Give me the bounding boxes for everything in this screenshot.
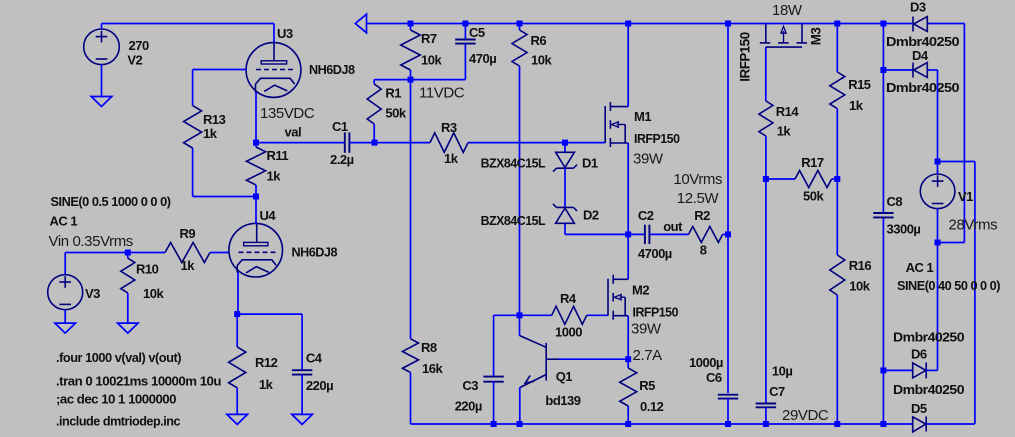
wire R6 down to R4 node xyxy=(519,66,521,315)
resistor R13 xyxy=(184,106,202,148)
svg-text:R3: R3 xyxy=(441,120,457,135)
zener diode D2 xyxy=(557,206,574,208)
svg-text:AC 1: AC 1 xyxy=(50,214,78,229)
svg-text:R9: R9 xyxy=(180,226,196,241)
svg-text:1k: 1k xyxy=(259,377,274,392)
svg-text:U4: U4 xyxy=(260,208,277,223)
svg-text:R10: R10 xyxy=(136,262,159,277)
svg-text:3300µ: 3300µ xyxy=(887,222,921,237)
svg-text:NH6DJ8: NH6DJ8 xyxy=(309,62,355,77)
svg-text:U3: U3 xyxy=(277,26,293,41)
voltage source V1 xyxy=(920,174,955,209)
ground below R12 xyxy=(227,414,248,424)
voltage source V3 xyxy=(64,253,66,275)
svg-text:1000µ: 1000µ xyxy=(689,355,723,370)
svg-text:R4: R4 xyxy=(560,291,577,306)
svg-text:M2: M2 xyxy=(632,283,649,298)
svg-text:M1: M1 xyxy=(634,109,651,124)
svg-text:16k: 16k xyxy=(422,361,443,376)
svg-text:R7: R7 xyxy=(421,31,437,46)
svg-text:2.7A: 2.7A xyxy=(633,347,663,364)
svg-text:R5: R5 xyxy=(639,378,655,393)
svg-text:val: val xyxy=(285,125,302,140)
svg-text:1k: 1k xyxy=(203,126,218,141)
resistor R17 xyxy=(766,178,795,180)
wire U4 cathode xyxy=(237,272,239,314)
wire U3 cathode xyxy=(255,92,257,143)
wire D1 to D2 xyxy=(564,168,566,207)
node val junction xyxy=(253,140,259,146)
svg-text:R6: R6 xyxy=(531,33,547,48)
svg-text:11VDC: 11VDC xyxy=(419,84,465,101)
triode U4 xyxy=(229,223,283,277)
svg-text:Dmbr40250: Dmbr40250 xyxy=(886,80,959,95)
svg-text:R8: R8 xyxy=(421,340,437,355)
svg-text:R11: R11 xyxy=(267,148,289,163)
wire D2 to out node xyxy=(564,223,566,234)
capacitor C1 xyxy=(344,132,346,152)
svg-text:270: 270 xyxy=(129,38,149,53)
voltage source V2 xyxy=(84,29,120,65)
diode D3 xyxy=(912,17,914,32)
svg-text:8: 8 xyxy=(700,243,707,258)
wire input node xyxy=(65,252,165,254)
diode D4 xyxy=(883,69,913,71)
resistor R16 xyxy=(836,179,838,255)
wire M1 source to out xyxy=(627,143,629,234)
svg-text:1000: 1000 xyxy=(555,324,582,339)
resistor R10 xyxy=(127,253,129,259)
nmos M2 xyxy=(607,279,609,316)
diode D5 xyxy=(913,417,926,432)
resistor R3 xyxy=(375,142,431,144)
svg-text:18W: 18W xyxy=(772,2,803,19)
resistor R1 xyxy=(373,80,375,84)
svg-text:IRFP150: IRFP150 xyxy=(738,32,753,81)
node V1 minus xyxy=(935,240,941,246)
wire Q1 collector xyxy=(519,315,521,336)
wire bottom rail xyxy=(411,423,913,425)
wire R13 bottom to node xyxy=(193,196,256,198)
pmos M3 on rail xyxy=(765,24,767,43)
wire M3 gate to R14 xyxy=(765,47,767,101)
nmos M1 xyxy=(604,106,606,143)
resistor R5 xyxy=(627,359,629,368)
svg-text:C7: C7 xyxy=(769,384,785,399)
svg-text:50k: 50k xyxy=(803,189,824,204)
svg-text:10k: 10k xyxy=(143,286,164,301)
svg-text:D5: D5 xyxy=(911,401,927,416)
wire D3 to V1 minus xyxy=(963,24,965,243)
svg-text:C1: C1 xyxy=(332,119,348,134)
svg-text:AC 1: AC 1 xyxy=(906,260,934,275)
svg-text:Vin 0.35Vrms: Vin 0.35Vrms xyxy=(49,233,133,250)
svg-text:39W: 39W xyxy=(631,321,662,338)
svg-text:;ac dec 10 1 1000000: ;ac dec 10 1 1000000 xyxy=(56,391,176,406)
wire M2 drain xyxy=(627,234,629,279)
npn transistor Q1 xyxy=(545,343,547,381)
svg-text:220µ: 220µ xyxy=(455,399,482,414)
wire out column x728 xyxy=(727,24,729,235)
svg-text:R2: R2 xyxy=(694,208,710,223)
svg-text:10Vrms: 10Vrms xyxy=(673,171,722,188)
svg-text:R17: R17 xyxy=(801,155,824,170)
svg-text:Q1: Q1 xyxy=(556,369,573,384)
node after C1 xyxy=(372,140,378,146)
svg-text:R1: R1 xyxy=(385,86,401,101)
capacitor C8 xyxy=(873,212,893,214)
svg-text:10k: 10k xyxy=(849,279,870,294)
net arrow top rail left end xyxy=(355,14,366,33)
svg-text:.four 1000 v(val) v(out): .four 1000 v(val) v(out) xyxy=(56,350,181,365)
node D1 gate xyxy=(562,140,568,146)
ground below R10 xyxy=(118,323,139,333)
svg-text:V3: V3 xyxy=(85,286,100,301)
svg-text:C3: C3 xyxy=(462,378,478,393)
diode D6 xyxy=(883,369,912,371)
resistor R12 xyxy=(236,314,238,347)
svg-text:V2: V2 xyxy=(127,53,142,68)
wire C8 column x883 xyxy=(882,24,884,213)
svg-text:IRFP150: IRFP150 xyxy=(633,304,679,319)
resistor R4 xyxy=(520,314,552,316)
svg-text:12.5W: 12.5W xyxy=(677,190,720,207)
svg-text:1k: 1k xyxy=(267,169,282,184)
resistor R6 xyxy=(519,24,521,31)
wire Q1 base xyxy=(559,358,628,360)
zener diode D1 xyxy=(564,143,566,153)
wire U3 grid xyxy=(193,69,247,71)
svg-text:0.12: 0.12 xyxy=(640,399,664,414)
resistor R7 xyxy=(410,24,412,31)
svg-text:D1: D1 xyxy=(582,156,598,171)
wire top rail left (V2 to U3 anode) xyxy=(102,23,275,25)
svg-text:39W: 39W xyxy=(633,151,664,168)
svg-text:1k: 1k xyxy=(849,98,864,113)
resistor R8 xyxy=(403,339,419,373)
svg-text:1k: 1k xyxy=(777,124,792,139)
resistor R9 xyxy=(165,243,210,263)
wire M2 source xyxy=(627,316,629,360)
svg-text:.include dmtriodep.inc: .include dmtriodep.inc xyxy=(56,414,180,429)
svg-text:out: out xyxy=(663,219,683,234)
svg-text:C2: C2 xyxy=(638,208,654,223)
svg-text:4700µ: 4700µ xyxy=(638,246,672,261)
resistor R14 xyxy=(759,101,773,136)
svg-text:220µ: 220µ xyxy=(306,378,333,393)
svg-text:470µ: 470µ xyxy=(469,51,496,66)
svg-text:Dmbr40250: Dmbr40250 xyxy=(893,382,964,397)
capacitor C6 xyxy=(718,394,738,396)
capacitor C2 xyxy=(628,233,645,235)
ground below C4 xyxy=(292,414,313,424)
node V1 plus xyxy=(935,159,941,165)
svg-text:R15: R15 xyxy=(848,77,871,92)
svg-text:R13: R13 xyxy=(203,112,226,127)
resistor R11 xyxy=(255,143,257,147)
svg-text:M3: M3 xyxy=(808,28,823,46)
wire top rail main xyxy=(366,23,913,25)
wire C7 column xyxy=(765,179,767,403)
svg-text:1k: 1k xyxy=(181,258,196,273)
svg-text:29VDC: 29VDC xyxy=(782,407,829,424)
svg-text:135VDC: 135VDC xyxy=(260,105,315,122)
ground below V2 xyxy=(91,97,112,107)
wire val xyxy=(256,142,344,144)
svg-text:28Vrms: 28Vrms xyxy=(949,217,998,234)
svg-text:D6: D6 xyxy=(911,347,927,362)
svg-text:.tran 0 10021ms 10000m 10u: .tran 0 10021ms 10000m 10u xyxy=(56,374,222,389)
svg-text:BZX84C15L: BZX84C15L xyxy=(481,156,546,171)
capacitor C4 xyxy=(237,313,302,315)
capacitor C3 xyxy=(494,314,520,316)
svg-text:R14: R14 xyxy=(776,104,800,119)
svg-text:Dmbr40250: Dmbr40250 xyxy=(886,34,959,49)
svg-text:10k: 10k xyxy=(531,53,552,68)
svg-text:C5: C5 xyxy=(469,25,485,40)
svg-text:R16: R16 xyxy=(849,258,872,273)
wire M1 drain xyxy=(627,24,629,107)
triode U3 xyxy=(246,43,301,98)
svg-text:50k: 50k xyxy=(385,106,406,121)
wire D4 to V1 plus xyxy=(937,70,939,162)
svg-text:C8: C8 xyxy=(887,194,903,209)
svg-text:R12: R12 xyxy=(255,355,278,370)
svg-text:2.2µ: 2.2µ xyxy=(330,152,354,167)
node U4 cathode junction xyxy=(234,311,240,317)
capacitor C7 xyxy=(756,403,776,405)
svg-text:NH6DJ8: NH6DJ8 xyxy=(292,244,338,259)
svg-text:1k: 1k xyxy=(444,151,459,166)
resistor R15 xyxy=(836,24,838,73)
svg-text:D2: D2 xyxy=(583,208,599,223)
svg-text:C4: C4 xyxy=(306,351,323,366)
svg-text:SINE(0 0.5 1000 0 0 0): SINE(0 0.5 1000 0 0 0) xyxy=(51,194,171,209)
node out junction xyxy=(625,231,631,237)
wire right edge column xyxy=(974,162,976,425)
node M2 source junction xyxy=(625,356,631,362)
resistor R2 xyxy=(689,226,723,242)
svg-text:BZX84C15L: BZX84C15L xyxy=(481,213,546,228)
svg-text:D4: D4 xyxy=(912,48,929,63)
wire Q1 emitter xyxy=(519,387,521,424)
svg-text:Dmbr40250: Dmbr40250 xyxy=(893,330,964,345)
wire R8 column xyxy=(410,80,412,339)
svg-text:IRFP150: IRFP150 xyxy=(634,131,680,146)
svg-text:C6: C6 xyxy=(706,370,722,385)
wire 11VDC node xyxy=(374,79,465,81)
svg-text:10µ: 10µ xyxy=(772,364,792,379)
svg-text:SINE(0 40 50 0 0 0): SINE(0 40 50 0 0 0) xyxy=(897,278,1000,293)
svg-text:bd139: bd139 xyxy=(545,393,580,408)
svg-text:D3: D3 xyxy=(910,0,926,15)
svg-text:10k: 10k xyxy=(421,53,442,68)
ground below V3 xyxy=(55,323,76,333)
capacitor C5 xyxy=(464,24,466,39)
svg-text:V1: V1 xyxy=(958,189,973,204)
